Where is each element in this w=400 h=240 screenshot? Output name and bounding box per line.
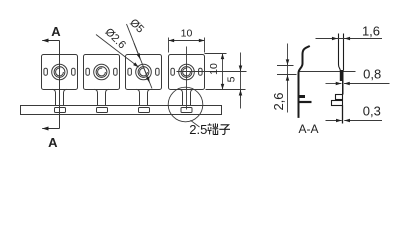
A-A right profile filled bend (340, 70, 344, 95)
terminal T2 (84, 55, 120, 90)
cutting plane arrow bottom (42, 128, 59, 130)
svg-text:A: A (48, 135, 58, 150)
dim 0,3: dimension line (326, 120, 342, 122)
dim 10 right: dimension line (222, 54, 224, 90)
svg-text:10: 10 (181, 27, 193, 39)
centerline horizontal T4 (177, 71, 247, 73)
cutting plane arrow top (42, 40, 59, 42)
leader Ø2.6 (96, 35, 139, 68)
svg-text:2,6: 2,6 (271, 92, 286, 110)
tab T2 (95, 89, 109, 105)
dim 0,8: dimension line (326, 83, 342, 85)
svg-text:0,3: 0,3 (363, 103, 381, 118)
pilot hole H3 (139, 108, 150, 113)
dim 2,6: dimension line (287, 44, 289, 113)
svg-text:10: 10 (208, 63, 220, 75)
A-A right profile rect B (332, 101, 343, 106)
label 子 glyph (219, 125, 230, 135)
A-A right profile bottom stem (342, 106, 344, 124)
carrier strip (21, 106, 222, 115)
label 端 glyph (207, 123, 218, 134)
section line A-A through T1 (59, 41, 61, 129)
A-A left profile strip arm (299, 101, 312, 103)
A-A section: centerline (299, 71, 356, 73)
dim 2,6: extension lines (277, 66, 297, 75)
balloon leader (191, 120, 200, 127)
terminal T4 (169, 55, 205, 90)
tab T4 (180, 89, 194, 105)
svg-text:2.5: 2.5 (189, 122, 207, 137)
dim 5 right: dimension line with outside arrows (240, 53, 242, 109)
pilot hole H1 (55, 108, 66, 113)
A-A left profile lug (black) (299, 95, 306, 98)
dim 10 top: dimension line (169, 40, 205, 42)
dim 10 right: extension lines (205, 54, 246, 90)
tab T3 (137, 89, 151, 105)
svg-text:5: 5 (225, 76, 237, 82)
svg-text:A: A (51, 24, 61, 39)
dim 10 top: extension lines (169, 38, 205, 53)
A-A right profile rect A (336, 95, 343, 100)
tab T1 (53, 89, 67, 105)
svg-text:1,6: 1,6 (362, 24, 380, 39)
dim 1,6: dimension line (316, 38, 383, 40)
centerline vertical T4 (186, 47, 188, 110)
detail balloon (168, 87, 203, 122)
A-A left profile (299, 46, 310, 118)
svg-text:0,8: 0,8 (363, 67, 381, 82)
leader Ø5 (127, 24, 153, 89)
terminal T3 (126, 55, 162, 90)
A-A right profile right surface (343, 34, 345, 71)
svg-text:A-A: A-A (298, 122, 318, 136)
terminal T1 (42, 55, 78, 90)
pilot hole H4 (181, 108, 192, 113)
A-A right profile left surface (339, 34, 341, 71)
pilot hole H2 (97, 108, 108, 113)
